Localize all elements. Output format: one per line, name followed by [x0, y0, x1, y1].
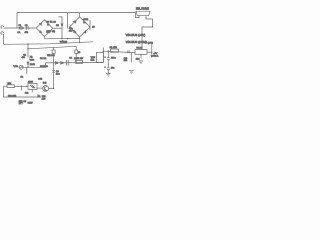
bridge rectifier BR1: [36, 20, 52, 37]
capacitor C4: [67, 60, 69, 66]
svg-text:R1 1R8: R1 1R8: [110, 47, 118, 49]
svg-text:VIN-BUS (COM): VIN-BUS (COM): [126, 40, 147, 44]
svg-text:10: 10: [78, 52, 81, 54]
svg-text:VIN-BUS (+5V): VIN-BUS (+5V): [126, 33, 146, 37]
optocoupler U2: [28, 83, 37, 89]
node G: [21, 86, 22, 87]
svg-text:1k2: 1k2: [25, 92, 29, 94]
resistor R2: [53, 48, 55, 51]
svg-text:78L05: 78L05: [136, 47, 143, 49]
svg-text:1N: 1N: [56, 25, 59, 27]
svg-text:100: 100: [42, 98, 46, 100]
bridge rectifier BR2: [70, 17, 91, 37]
wire rail C: [27, 44, 29, 49]
node H2: [108, 50, 109, 51]
svg-text:C4: C4: [69, 58, 73, 60]
varistor VDR1: [22, 63, 46, 67]
node C1: [27, 48, 28, 49]
wire BR2 top: [79, 13, 81, 17]
svg-text:VDR: VDR: [30, 59, 35, 61]
resistor R4: [76, 60, 83, 63]
svg-text:30mA: 30mA: [153, 55, 159, 58]
wire BR2 bottom: [79, 37, 81, 42]
capacitor C10 electrolytic: [107, 68, 110, 74]
svg-text:548: 548: [43, 82, 47, 84]
node H: [103, 51, 104, 52]
capacitor C5: [21, 86, 23, 90]
svg-text:C4B: C4B: [38, 79, 43, 81]
capacitor C11: [140, 54, 142, 58]
svg-text:VDR: VDR: [14, 66, 19, 68]
node D: [27, 67, 28, 68]
capacitor C9 electrolytic: [107, 51, 110, 68]
wire BR1 bottom: [44, 37, 46, 39]
svg-text:(45 T 45): (45 T 45): [46, 31, 55, 33]
wire AC line bottom: [3, 34, 5, 44]
svg-text:47u: 47u: [111, 68, 115, 70]
capacitor C1: [27, 26, 29, 29]
svg-text:2TY: 2TY: [19, 103, 24, 105]
wire left loop: [4, 86, 42, 97]
capacitor C2: [67, 13, 69, 29]
connector J1 AC input: [1, 26, 4, 35]
capacitor C6: [31, 90, 33, 93]
node A2: [67, 38, 68, 39]
node G0: [26, 86, 27, 87]
wire BR1 out: [53, 27, 62, 29]
ground GND2: [139, 61, 143, 64]
wire opto right: [37, 87, 43, 89]
svg-text:100R 1W: 100R 1W: [74, 58, 84, 60]
svg-text:D6 7D-4S: D6 7D-4S: [46, 21, 56, 23]
svg-text:1N41: 1N41: [30, 64, 36, 66]
diode D5: [59, 17, 63, 28]
wire U3 out: [147, 51, 152, 53]
svg-text:473: 473: [22, 57, 26, 59]
ground GND3: [129, 71, 133, 74]
diode D8: [38, 95, 40, 97]
node F: [53, 88, 54, 89]
wire opto left: [15, 85, 29, 87]
svg-text:+BR2: +BR2: [83, 19, 89, 21]
svg-text:(+5V): (+5V): [148, 43, 154, 45]
svg-text:4N35: 4N35: [28, 81, 34, 83]
node B2: [79, 42, 80, 43]
svg-text:D1 D2: D1 D2: [40, 58, 47, 60]
resistor R3: [75, 46, 77, 50]
svg-text:470u: 470u: [111, 57, 117, 59]
svg-text:104: 104: [124, 60, 128, 62]
resistor R5: [26, 67, 28, 74]
svg-text:10u: 10u: [56, 74, 60, 76]
wire DC riser: [102, 48, 104, 63]
svg-text:+: +: [104, 66, 106, 68]
svg-text:25v: 25v: [69, 31, 73, 33]
node A1: [61, 38, 62, 39]
wire rail A: [45, 37, 80, 39]
diode D1: [56, 62, 58, 64]
wire rail B common: [4, 42, 94, 45]
wire BR2 right lead: [89, 20, 91, 31]
capacitor C12: [128, 50, 129, 53]
wire riser x53.6: [53, 54, 55, 89]
capacitor C11b: [130, 53, 132, 63]
wire DC feed: [103, 51, 135, 53]
svg-text:1A: 1A: [18, 31, 21, 34]
svg-text:2S: 2S: [92, 27, 95, 29]
svg-text:0.5W: 0.5W: [28, 103, 33, 105]
svg-text:KBL DRIVE: KBL DRIVE: [136, 8, 149, 11]
svg-text:230-30B: 230-30B: [8, 95, 17, 97]
node B1: [27, 43, 28, 44]
transistor Q1: [43, 86, 49, 92]
svg-text:104: 104: [136, 58, 140, 60]
resistor R6: [4, 85, 8, 87]
svg-text:1k: 1k: [21, 76, 24, 78]
ground GND1: [106, 74, 110, 77]
capacitor C8: [52, 71, 55, 73]
diode D2: [61, 62, 63, 64]
wire AC line top: [4, 27, 37, 29]
svg-text:4D2: 4D2: [90, 60, 95, 62]
svg-text:+5V: +5V: [153, 53, 157, 55]
node E1: [53, 62, 54, 63]
node P: [152, 26, 153, 27]
svg-text:+: +: [104, 56, 106, 58]
wire top rail: [17, 13, 139, 28]
varistor VDR2: [97, 52, 104, 62]
diode D7: [27, 62, 29, 64]
fuse F1: [19, 27, 23, 29]
wire main low rail: [46, 62, 104, 64]
svg-text:474: 474: [25, 32, 29, 34]
svg-text:1N4148: 1N4148: [40, 66, 48, 68]
capacitor C3: [27, 49, 29, 58]
resistor R1: [110, 49, 118, 52]
svg-text:KBL004: KBL004: [47, 55, 55, 57]
